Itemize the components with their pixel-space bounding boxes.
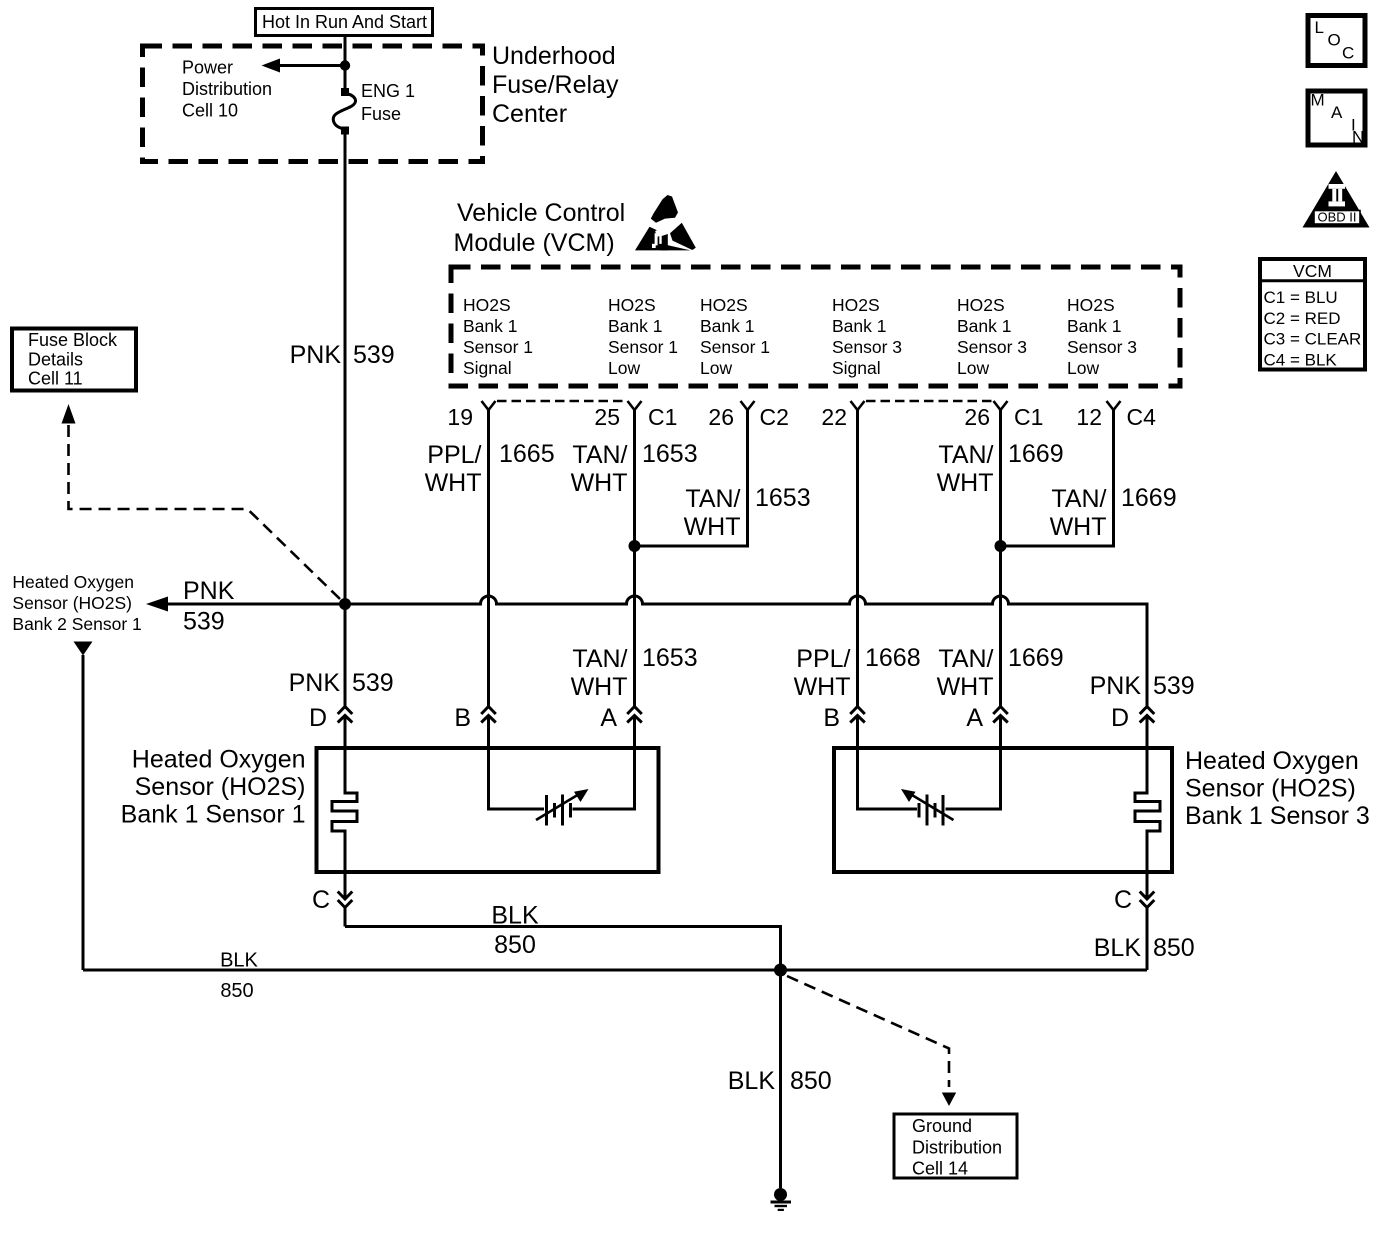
svg-text:PPL/WHT: PPL/WHT (425, 441, 482, 497)
wire TAN/WHT 1653 (pin 26 C2 joining node) (635, 410, 748, 546)
wire from Hot In Run box to fuse ENG 1 (344, 36, 347, 92)
svg-text:Heated OxygenSensor (HO2S)Bank: Heated OxygenSensor (HO2S)Bank 2 Sensor … (12, 572, 141, 634)
wire PPL/WHT 1668 (pin 22 to right sensor B) (856, 410, 859, 706)
svg-text:C: C (312, 886, 330, 914)
wire PPL/WHT 1665 (pin 19 to left sensor B) (487, 410, 490, 706)
wire pin B into left sensor (489, 748, 545, 809)
svg-text:C: C (1342, 44, 1354, 63)
wire BLK 850 from left sensor C (345, 927, 781, 971)
Ground Distribution Cell 14 box (894, 1114, 1017, 1178)
wire TAN/WHT 1653 (pin 25 to left sensor A) (633, 410, 636, 706)
heater element (left sensor, pin D to C) (332, 748, 357, 872)
ground symbol G103 (771, 1188, 792, 1211)
svg-text:C1: C1 (1014, 404, 1043, 430)
svg-text:1669: 1669 (1008, 644, 1064, 672)
connector C1 dashed tie 22-26 (866, 400, 992, 403)
svg-text:850: 850 (494, 931, 536, 959)
svg-text:L: L (1315, 18, 1324, 37)
OBD II symbol (1303, 171, 1370, 228)
svg-text:26: 26 (708, 404, 734, 430)
arrowhead (wire from HO2S Bank 2 Sensor 1) (74, 642, 93, 656)
svg-text:12: 12 (1076, 404, 1102, 430)
svg-text:C: C (1114, 886, 1132, 914)
wire BLK 850 main ground bus (83, 969, 1147, 972)
dashed reference arrow to Fuse Block Details (69, 423, 341, 599)
wire to Power Distribution Cell 10 (277, 64, 345, 67)
Heated Oxygen Sensor Bank 1 Sensor 3 box (834, 748, 1172, 872)
svg-text:A: A (1331, 103, 1343, 122)
svg-text:26: 26 (964, 404, 990, 430)
svg-text:A: A (600, 704, 617, 732)
LOC reference box (1308, 16, 1365, 66)
wire PNK 539 from fuse down to main junction (344, 135, 347, 605)
svg-text:OBD II: OBD II (1317, 210, 1356, 225)
svg-text:1669: 1669 (1008, 440, 1064, 468)
svg-text:C1: C1 (648, 404, 677, 430)
node: ground bus junction (774, 964, 787, 977)
svg-text:M: M (1311, 91, 1325, 110)
svg-text:Heated OxygenSensor (HO2S)Bank: Heated OxygenSensor (HO2S)Bank 1 Sensor … (121, 746, 306, 829)
svg-text:PNK: PNK (1090, 672, 1142, 700)
svg-text:1653: 1653 (755, 484, 811, 512)
wire pin A into right sensor (946, 748, 1001, 809)
pin B connector (left sensor) (454, 704, 495, 748)
wire TAN/WHT 1669 (pin 12 C4 joining node) (1001, 410, 1114, 546)
wire pin A into left sensor (573, 748, 635, 809)
oxygen sense element (right sensor, variable cell) (901, 789, 954, 826)
svg-text:850: 850 (220, 980, 253, 1002)
svg-text:D: D (309, 704, 327, 732)
svg-text:539: 539 (353, 341, 395, 369)
svg-text:TAN/WHT: TAN/WHT (1050, 485, 1107, 541)
VCM dashed box (451, 267, 1180, 386)
pin 25 connector (628, 401, 642, 410)
svg-text:1665: 1665 (499, 440, 555, 468)
MAIN reference box (1308, 91, 1365, 147)
node: splice of 1653 wires (629, 540, 641, 552)
svg-text:Heated OxygenSensor (HO2S)Bank: Heated OxygenSensor (HO2S)Bank 1 Sensor … (1185, 747, 1370, 830)
svg-text:PNK: PNK (289, 669, 341, 697)
Heated Oxygen Sensor Bank 1 Sensor 1 box (317, 748, 659, 872)
svg-text:22: 22 (821, 404, 847, 430)
svg-text:TAN/WHT: TAN/WHT (571, 441, 628, 497)
arrowhead of PNK 539 to HO2S Bank 2 Sensor 1 (146, 597, 168, 612)
svg-text:TAN/WHT: TAN/WHT (684, 485, 741, 541)
pin C connector (right sensor) (1114, 872, 1154, 970)
arrowhead into Ground Distribution box (942, 1093, 956, 1107)
svg-text:25: 25 (594, 404, 620, 430)
fuse ENG 1 (element) (333, 88, 355, 135)
pin C connector (left sensor) (312, 872, 352, 927)
pin 19 connector (482, 401, 496, 410)
arrowhead to Fuse Block Details (62, 404, 76, 424)
svg-text:TAN/WHT: TAN/WHT (937, 645, 994, 701)
heater element (right sensor, pin D to C) (1135, 748, 1160, 872)
pin 26 connector (C1) (994, 401, 1008, 410)
svg-text:BLK: BLK (491, 902, 539, 930)
pin A connector (right sensor) (966, 704, 1007, 748)
svg-text:TAN/WHT: TAN/WHT (571, 645, 628, 701)
svg-text:539: 539 (352, 669, 394, 697)
svg-text:539: 539 (1153, 672, 1195, 700)
wire pin B into right sensor (858, 748, 918, 809)
pin 12 connector (C4) (1107, 401, 1121, 410)
dashed reference to Ground Distribution Cell 14 (787, 976, 949, 1087)
svg-text:B: B (823, 704, 840, 732)
wire TAN/WHT 1669 (pin 26 C1 to right sensor A) (999, 410, 1002, 706)
svg-text:850: 850 (1153, 934, 1195, 962)
svg-text:B: B (454, 704, 471, 732)
node: splice of 1669 wires (995, 540, 1007, 552)
ESD sensitivity symbol (635, 195, 696, 250)
connector C1 dashed tie 19-25 (497, 400, 626, 403)
power source label box "Hot In Run And Start" (256, 9, 433, 36)
svg-text:D: D (1111, 704, 1129, 732)
wire from Bank 2 Sensor 1 down left side (82, 655, 85, 970)
svg-text:TAN/WHT: TAN/WHT (937, 441, 994, 497)
VCM connector legend box (1259, 259, 1368, 370)
pin D connector (right sensor) (1111, 704, 1154, 748)
svg-text:19: 19 (447, 404, 473, 430)
svg-text:PNK: PNK (290, 341, 342, 369)
svg-text:BLK: BLK (220, 950, 258, 972)
svg-text:1669: 1669 (1121, 484, 1177, 512)
svg-text:C4: C4 (1127, 404, 1157, 430)
node: main PNK junction (339, 598, 351, 610)
svg-text:O: O (1328, 31, 1341, 50)
svg-text:850: 850 (790, 1067, 832, 1095)
pin A connector (left sensor) (600, 704, 641, 748)
pin D connector (left sensor) (309, 604, 352, 748)
svg-text:Hot In Run And Start: Hot In Run And Start (262, 12, 427, 32)
svg-text:BLK: BLK (728, 1067, 776, 1095)
svg-text:VCM: VCM (1293, 261, 1332, 281)
Underhood Fuse/Relay Center dashed box (143, 46, 483, 162)
svg-text:1653: 1653 (642, 644, 698, 672)
wire PNK 539 horizontal bus with hops over signal wires (279, 596, 1147, 706)
pin B connector (right sensor) (823, 704, 864, 748)
Fuse Block Details Cell 11 box (12, 329, 136, 391)
pin 26 connector (C2) (741, 401, 755, 410)
svg-text:C2: C2 (760, 404, 789, 430)
svg-text:A: A (966, 704, 983, 732)
svg-text:1668: 1668 (865, 644, 921, 672)
node: junction of feed wire and Power Distribution tap (340, 60, 350, 70)
arrowhead to Power Distribution (262, 59, 281, 73)
svg-text:PPL/WHT: PPL/WHT (794, 645, 851, 701)
pin 22 connector (851, 401, 865, 410)
svg-text:N: N (1352, 128, 1364, 147)
svg-text:1653: 1653 (642, 440, 698, 468)
svg-text:BLK: BLK (1094, 934, 1142, 962)
oxygen sense element (left sensor, variable cell) (536, 789, 589, 826)
wire BLK 850 to ground (779, 970, 782, 1188)
